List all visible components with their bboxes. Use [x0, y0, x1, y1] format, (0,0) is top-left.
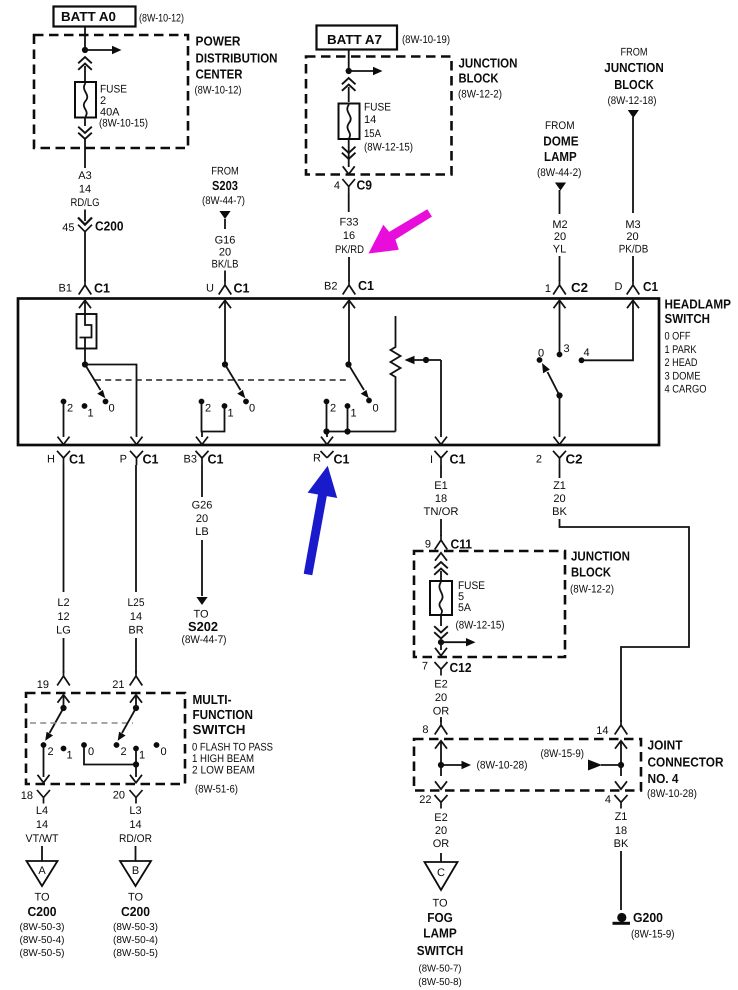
mechanical link dashed line [95, 379, 350, 381]
svg-text:C1: C1 [334, 452, 350, 467]
rheostat wiper arrow [405, 356, 442, 365]
marker arrow from dome lamp [555, 183, 566, 215]
exit arrow I [435, 437, 447, 445]
svg-text:CENTER: CENTER [196, 67, 244, 82]
svg-text:SWITCH: SWITCH [417, 943, 464, 958]
svg-text:MULTI-: MULTI- [193, 692, 232, 707]
node pin 14 bus [618, 762, 624, 768]
svg-text:FROM: FROM [545, 120, 575, 132]
wire pivot to 2 C2 output [559, 396, 561, 438]
connector C11 pin 9 [425, 535, 472, 552]
svg-text:B3: B3 [184, 454, 197, 466]
mfs switch 1 pivot [60, 705, 66, 711]
wire contact2 to H output [63, 403, 65, 437]
svg-text:20: 20 [196, 513, 208, 525]
svg-text:19: 19 [37, 679, 49, 691]
switch 3 contact 2 [324, 399, 337, 415]
svg-text:0: 0 [249, 403, 255, 415]
svg-text:4 CARGO: 4 CARGO [665, 384, 707, 396]
svg-text:S202: S202 [188, 619, 218, 634]
to S202 label [182, 609, 227, 647]
switch 3 wiper arm [349, 365, 369, 399]
svg-text:TO: TO [128, 892, 144, 904]
off-page triangle C [425, 853, 458, 890]
mfs switch 2 wiper arm [118, 708, 136, 741]
connector pin 19 [37, 671, 70, 691]
wire label L4 14 VT/WT [26, 805, 59, 845]
svg-text:15A: 15A [364, 128, 382, 140]
svg-text:1 HIGH BEAM: 1 HIGH BEAM [192, 753, 254, 765]
power distribution center title [195, 34, 278, 97]
wire to headlamp switch U [224, 271, 226, 282]
fuse clip bottom (fuse 14) [342, 139, 356, 167]
svg-text:(8W-44-7): (8W-44-7) [182, 634, 227, 646]
svg-text:14: 14 [36, 819, 48, 831]
wiper node [423, 357, 429, 363]
exit arrow pin 20 [130, 775, 142, 783]
junction block dashed box (fuse 5) [414, 551, 565, 657]
svg-text:20: 20 [626, 231, 638, 243]
svg-text:TO: TO [432, 898, 448, 910]
fuse clip top (fuse 5) [434, 562, 448, 581]
wire P to multifunction switch [135, 465, 137, 592]
svg-text:HEADLAMP: HEADLAMP [665, 296, 732, 311]
mfs switch 2 pivot [133, 705, 139, 711]
svg-text:I: I [430, 454, 433, 466]
wire contact 2 to pin 18 [43, 747, 45, 777]
exit arrow pin 4 [615, 765, 627, 789]
svg-text:LAMP: LAMP [544, 149, 577, 164]
svg-text:(8W-10-19): (8W-10-19) [402, 34, 450, 46]
switch 2 contact 0 [243, 399, 255, 415]
rotary wiper arm [542, 363, 560, 396]
svg-text:RD/LG: RD/LG [71, 197, 100, 209]
svg-text:C1: C1 [94, 281, 110, 296]
node switch 2 pivot [222, 361, 228, 367]
from S203 header [202, 166, 245, 208]
wire label G26 20 LB [192, 500, 213, 539]
junction block title (fuse 5) [570, 549, 630, 596]
svg-text:(8W-10-28): (8W-10-28) [647, 788, 697, 800]
wire label F33 16 PK/RD [335, 217, 364, 257]
connector C2 pin 1 [545, 280, 588, 295]
magenta annotation arrow [369, 209, 432, 253]
svg-text:SWITCH: SWITCH [665, 311, 711, 326]
fuse clip top (fuse 14) [342, 78, 356, 102]
svg-text:1: 1 [351, 408, 357, 420]
svg-text:14: 14 [79, 184, 91, 196]
multi-function switch title [192, 692, 273, 796]
svg-text:M3: M3 [625, 219, 640, 231]
svg-text:(8W-44-2): (8W-44-2) [537, 167, 582, 179]
svg-text:0 FLASH TO PASS: 0 FLASH TO PASS [192, 742, 273, 754]
connector pin 20 [113, 790, 143, 804]
svg-text:(8W-12-2): (8W-12-2) [458, 89, 502, 101]
svg-text:2 HEAD: 2 HEAD [665, 357, 698, 369]
exit arrow H [58, 437, 70, 445]
from junction block header (right) [604, 47, 664, 108]
svg-text:TN/OR: TN/OR [424, 506, 459, 518]
exit arrow 2 C2 [554, 437, 566, 445]
svg-text:(8W-50-3): (8W-50-3) [113, 922, 158, 933]
svg-text:5A: 5A [458, 602, 472, 614]
marker arrow from S203 [219, 211, 230, 229]
wire label M3 20 PK/DB [619, 219, 649, 256]
circuit breaker [77, 314, 97, 349]
entry arrow pin 8 [435, 741, 447, 765]
marker arrow to S202 [196, 597, 207, 605]
wire Z1 2C2 down [559, 465, 561, 478]
svg-text:C200: C200 [121, 904, 150, 919]
svg-text:FUSE: FUSE [100, 84, 127, 96]
exit arrow at C12 border [435, 642, 447, 656]
svg-text:16: 16 [343, 230, 355, 242]
wire label A3 14 RD/LG [71, 170, 100, 209]
exit arrow B3 [196, 437, 208, 445]
svg-text:C11: C11 [451, 537, 473, 552]
svg-text:(8W-12-15): (8W-12-15) [456, 620, 505, 632]
svg-text:FROM: FROM [621, 47, 648, 59]
wire I down [440, 465, 442, 478]
connector C12 pin 7 [422, 660, 472, 676]
power distribution center dashed box [34, 35, 188, 148]
joint connector no.4 title [647, 738, 724, 801]
svg-text:(8W-50-5): (8W-50-5) [113, 948, 158, 959]
node in junction block [346, 68, 352, 74]
link wire pivot to P output [85, 365, 137, 438]
svg-text:JOINT: JOINT [648, 738, 683, 753]
branch arrow to other circuits [349, 67, 383, 75]
svg-text:0 OFF: 0 OFF [665, 331, 691, 343]
joint connector no.4 dashed box [414, 739, 641, 791]
svg-text:C1: C1 [234, 281, 250, 296]
junction dot bracket left [323, 428, 329, 434]
connector C1 pin R [313, 451, 349, 467]
entry arrow D and wire to contact 4 [584, 300, 640, 360]
switch 1 contact 1 [82, 403, 94, 419]
rotary contact 0 [537, 348, 545, 363]
connector C9 pin 4 [334, 178, 372, 213]
svg-text:(8W-15-9): (8W-15-9) [541, 748, 585, 760]
reference (8W-10-12) beside BATT A0 [139, 13, 184, 25]
svg-text:2: 2 [100, 95, 106, 107]
svg-text:SWITCH: SWITCH [193, 722, 246, 737]
wire label M2 20 YL [552, 219, 567, 256]
branch arrow to other circuits [85, 46, 122, 54]
svg-text:20: 20 [435, 825, 447, 837]
entry wire 21 [130, 695, 142, 708]
svg-text:G200: G200 [633, 910, 663, 925]
wire label L3 14 RD/OR [119, 805, 152, 845]
svg-text:B: B [132, 865, 139, 877]
svg-text:(8W-50-7): (8W-50-7) [419, 963, 462, 974]
svg-text:OR: OR [433, 838, 450, 850]
svg-text:14: 14 [130, 611, 142, 623]
junction dot bracket right [344, 428, 350, 434]
svg-text:YL: YL [553, 244, 566, 256]
svg-text:JUNCTION: JUNCTION [571, 549, 630, 564]
svg-text:RD/OR: RD/OR [119, 833, 152, 845]
exit arrow pin 22 [435, 765, 447, 789]
connector pin 21 [112, 671, 142, 691]
switch 1 contact 0 [103, 399, 115, 415]
wire label E2 20 OR (upper) [433, 679, 450, 718]
svg-text:(8W-10-28): (8W-10-28) [477, 760, 528, 772]
mfs switch 2 contact 0 [154, 742, 167, 758]
node below fuse 5 [438, 639, 444, 645]
mfs switch 1 contact 2 [41, 742, 54, 758]
wire to headlamp switch B1 [84, 232, 86, 281]
switch 2 contact 1 [222, 403, 234, 419]
connector pin 18 [21, 790, 50, 804]
bracket contact 0 sw1 and contact 1 sw2 to pin 20 [84, 747, 139, 777]
svg-text:0: 0 [373, 403, 379, 415]
svg-text:14: 14 [364, 114, 376, 126]
svg-text:2: 2 [48, 746, 54, 758]
svg-text:12: 12 [57, 611, 69, 623]
wire wiper to I output [440, 360, 442, 437]
junction block dashed box (fuse 14) [306, 57, 452, 175]
svg-text:JUNCTION: JUNCTION [604, 60, 664, 75]
svg-text:BK: BK [552, 506, 567, 518]
svg-text:C200: C200 [95, 219, 124, 234]
svg-text:B2: B2 [324, 281, 337, 293]
svg-text:C9: C9 [357, 178, 373, 193]
switch 2 contact 2 [199, 399, 212, 415]
wire to ground [620, 851, 622, 910]
svg-text:20: 20 [553, 493, 565, 505]
rotary contact 4 [579, 347, 590, 363]
svg-text:OR: OR [433, 706, 450, 718]
svg-text:C1: C1 [643, 279, 658, 294]
svg-text:BR: BR [128, 625, 143, 637]
svg-text:FUNCTION: FUNCTION [193, 707, 254, 722]
svg-text:S203: S203 [212, 178, 238, 193]
wire to C11 [440, 519, 442, 536]
svg-text:G26: G26 [192, 500, 213, 512]
svg-text:U: U [206, 283, 214, 295]
fuse clip bottom (fuse 5) [434, 615, 448, 639]
svg-text:21: 21 [112, 679, 124, 691]
wire label G16 20 BK/LB [212, 235, 239, 271]
svg-text:FROM: FROM [211, 166, 239, 178]
wire to pin 19 [63, 638, 65, 673]
switch 3 contact 1 [345, 403, 357, 419]
mfs switch 2 contact 2 [114, 742, 127, 758]
battery feed box BATT A0 [54, 7, 136, 27]
svg-text:FUSE: FUSE [364, 102, 391, 114]
wire H to multifunction switch [63, 465, 65, 592]
svg-text:C2: C2 [566, 452, 583, 467]
svg-text:NO. 4: NO. 4 [648, 771, 680, 786]
entry arrow 1 C2 [554, 300, 566, 352]
svg-text:L3: L3 [129, 805, 141, 817]
connector C1 pin B2 [324, 278, 374, 295]
ground G200 [613, 913, 631, 925]
fuse 5 [430, 581, 452, 615]
to fog lamp switch label [417, 898, 464, 989]
wire out of PDC [84, 139, 86, 168]
wire to headlamp switch 1 C2 [559, 256, 561, 281]
exit arrow R [321, 437, 333, 445]
entry arrow U [219, 300, 231, 364]
svg-text:20: 20 [435, 692, 447, 704]
wire to S202 [201, 540, 203, 596]
svg-text:LAMP: LAMP [423, 926, 457, 941]
svg-text:C1: C1 [69, 452, 85, 467]
node switch 1 pivot [82, 361, 88, 367]
svg-text:(8W-44-7): (8W-44-7) [202, 195, 245, 207]
svg-text:(8W-10-12): (8W-10-12) [195, 85, 242, 97]
svg-text:C1: C1 [143, 452, 159, 467]
svg-text:R: R [313, 453, 321, 465]
svg-text:Z1: Z1 [615, 811, 628, 823]
connector C1 pin B3 [184, 451, 224, 467]
headlamp switch title [665, 296, 732, 395]
bracket contacts 2,1 and rheostat return to R output [327, 403, 396, 437]
svg-text:1: 1 [88, 408, 94, 420]
connector C1 pin D [615, 279, 658, 295]
svg-text:22: 22 [419, 794, 431, 806]
svg-text:14: 14 [596, 725, 608, 737]
fuse 5 value label [456, 580, 505, 632]
wire from BATT A0 into PDC [84, 27, 86, 51]
svg-text:A: A [38, 865, 46, 877]
wire label E2 20 OR (lower) [433, 812, 450, 850]
svg-text:G16: G16 [215, 235, 236, 247]
svg-text:(8W-50-5): (8W-50-5) [20, 948, 65, 959]
svg-text:BATT A0: BATT A0 [61, 9, 116, 24]
wire to pin 21 [135, 638, 137, 673]
wire to headlamp switch B2 [348, 257, 350, 281]
svg-text:1: 1 [228, 408, 234, 420]
switch 2 wiper arm [225, 365, 245, 399]
branch from 8W-15-9 [541, 748, 622, 771]
entry arrow at C11 border [435, 553, 447, 561]
entry arrow pin 19 [58, 695, 70, 708]
exit arrow P [131, 437, 143, 445]
svg-text:VT/WT: VT/WT [26, 833, 59, 845]
svg-text:9: 9 [425, 539, 431, 551]
mfs mechanical link dashed [30, 722, 133, 724]
svg-text:0: 0 [109, 403, 115, 415]
svg-text:18: 18 [21, 790, 33, 802]
in-line connector C200 pin 45 [62, 218, 123, 235]
svg-text:(8W-10-12): (8W-10-12) [139, 13, 184, 25]
wire label Z1 20 BK [552, 480, 567, 518]
svg-text:4: 4 [605, 794, 611, 806]
battery feed box BATT A7 [317, 26, 398, 50]
connector C2 pin 2 [536, 451, 583, 467]
svg-text:(8W-10-15): (8W-10-15) [99, 118, 148, 130]
svg-text:1 PARK: 1 PARK [665, 344, 698, 356]
blue annotation arrow [304, 466, 338, 576]
svg-text:E1: E1 [434, 480, 447, 492]
svg-text:B1: B1 [59, 283, 72, 295]
connector C1 pin P [120, 451, 159, 467]
entry arrow B1 [79, 300, 91, 314]
rheostat (panel dimmer) [391, 316, 401, 432]
switch 3 contact 0 [366, 398, 379, 415]
svg-text:(8W-50-4): (8W-50-4) [20, 935, 65, 946]
junction block title [458, 55, 518, 100]
mfs switch 1 contact 1 [61, 746, 73, 762]
switch 1 wiper arm [85, 365, 105, 399]
svg-text:C2: C2 [571, 280, 588, 295]
svg-text:DISTRIBUTION: DISTRIBUTION [196, 50, 278, 65]
svg-text:H: H [47, 454, 55, 466]
wire label L2 12 LG [56, 597, 71, 637]
connector C1 pin H [47, 451, 85, 467]
fuse 14 [339, 104, 360, 140]
svg-text:C1: C1 [450, 452, 466, 467]
svg-text:2: 2 [67, 403, 73, 415]
node switch 3 pivot [345, 361, 351, 367]
svg-text:BATT A7: BATT A7 [327, 32, 382, 47]
svg-text:Z1: Z1 [553, 480, 566, 492]
svg-text:BK: BK [614, 838, 629, 850]
entry arrow B2 [343, 300, 355, 364]
svg-text:E2: E2 [434, 679, 447, 691]
svg-text:(8W-50-3): (8W-50-3) [20, 922, 65, 933]
node in PDC [82, 47, 88, 53]
fuse 2 value label [99, 84, 148, 130]
svg-text:0: 0 [88, 746, 94, 758]
svg-text:C12: C12 [450, 660, 472, 675]
marker arrow from junction block [628, 110, 639, 213]
svg-text:20: 20 [113, 790, 125, 802]
connector pin 22 [419, 794, 447, 809]
svg-text:BK/LB: BK/LB [212, 259, 239, 271]
svg-text:JUNCTION: JUNCTION [459, 55, 518, 70]
exit arrow pin 18 [38, 775, 50, 783]
svg-text:F33: F33 [340, 217, 359, 229]
wire label Z1 18 BK [614, 811, 629, 850]
svg-text:8: 8 [422, 724, 428, 736]
svg-text:POWER: POWER [196, 34, 242, 49]
svg-text:2: 2 [121, 746, 127, 758]
svg-text:PK/RD: PK/RD [335, 244, 364, 256]
svg-text:TO: TO [34, 892, 50, 904]
svg-text:L2: L2 [57, 597, 69, 609]
svg-text:0: 0 [538, 348, 544, 360]
svg-text:BLOCK: BLOCK [459, 71, 500, 86]
wire label L25 14 BR [128, 597, 145, 637]
svg-text:(8W-51-6): (8W-51-6) [195, 784, 238, 796]
connector pin 8 [422, 720, 447, 736]
svg-text:2: 2 [330, 403, 336, 415]
svg-text:C1: C1 [358, 278, 374, 293]
svg-text:4: 4 [584, 347, 590, 359]
headlamp switch box [18, 299, 659, 446]
bracket contacts 2,1 to B3 output [202, 403, 225, 437]
svg-text:4: 4 [334, 180, 340, 192]
svg-text:L25: L25 [128, 597, 145, 609]
svg-text:CONNECTOR: CONNECTOR [648, 755, 725, 770]
svg-text:E2: E2 [434, 812, 447, 824]
svg-text:14: 14 [129, 819, 141, 831]
connector C1 pin B1 [59, 280, 110, 296]
from dome lamp header [537, 120, 582, 179]
fuse clip top (fuse 2) [78, 57, 92, 82]
wire to C200 [84, 210, 86, 222]
svg-text:20: 20 [219, 247, 231, 259]
connector C1 pin I [430, 451, 466, 467]
svg-text:1: 1 [545, 283, 551, 295]
svg-text:0: 0 [161, 746, 167, 758]
off-page triangle B [120, 846, 151, 886]
to C200 label (B) [113, 892, 158, 960]
